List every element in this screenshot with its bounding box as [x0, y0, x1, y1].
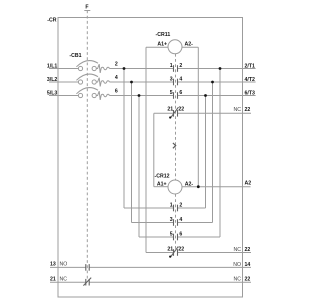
svg-text:6/T3: 6/T3 [245, 90, 255, 96]
svg-text:-CR11: -CR11 [156, 32, 171, 38]
svg-text:22: 22 [178, 107, 184, 113]
svg-text:NC: NC [234, 277, 242, 283]
svg-text:A2-: A2- [185, 41, 194, 47]
svg-text:-CR12: -CR12 [155, 173, 170, 179]
svg-text:5: 5 [170, 90, 173, 96]
svg-text:3: 3 [170, 77, 173, 83]
svg-text:22: 22 [245, 247, 251, 253]
svg-text:4: 4 [179, 217, 182, 223]
svg-text:A2: A2 [245, 181, 252, 187]
svg-text:NC: NC [234, 247, 242, 253]
svg-text:6: 6 [179, 232, 182, 238]
svg-text:14: 14 [245, 262, 251, 268]
svg-text:3: 3 [170, 217, 173, 223]
svg-text:1: 1 [170, 203, 173, 209]
svg-text:5: 5 [170, 232, 173, 238]
svg-text:A1+: A1+ [157, 181, 167, 187]
svg-text:22: 22 [178, 247, 184, 253]
svg-text:2: 2 [115, 62, 118, 68]
svg-text:6: 6 [115, 89, 118, 95]
svg-text:2: 2 [179, 63, 182, 69]
svg-text:1/L1: 1/L1 [47, 63, 57, 69]
svg-text:NO: NO [60, 262, 68, 268]
svg-text:22: 22 [245, 277, 251, 283]
svg-text:NC: NC [234, 107, 242, 113]
svg-text:NC: NC [60, 276, 68, 282]
svg-text:2/T1: 2/T1 [245, 63, 255, 69]
svg-text:21: 21 [167, 107, 173, 113]
svg-text:21: 21 [50, 276, 56, 282]
svg-text:-CR: -CR [47, 17, 56, 23]
svg-text:21: 21 [167, 247, 173, 253]
svg-text:A1+: A1+ [157, 41, 167, 47]
svg-text:2: 2 [179, 203, 182, 209]
svg-text:4/T2: 4/T2 [245, 77, 255, 83]
svg-text:1: 1 [170, 63, 173, 69]
svg-text:5/L3: 5/L3 [47, 90, 57, 96]
svg-text:4: 4 [179, 77, 182, 83]
svg-text:13: 13 [50, 262, 56, 268]
svg-text:22: 22 [245, 107, 251, 113]
svg-text:NO: NO [233, 262, 241, 268]
svg-text:F: F [85, 4, 88, 10]
svg-text:6: 6 [179, 90, 182, 96]
svg-text:3/L2: 3/L2 [47, 77, 57, 83]
svg-text:-CB1: -CB1 [69, 53, 81, 59]
svg-text:A2-: A2- [185, 181, 194, 187]
svg-text:4: 4 [115, 75, 118, 81]
